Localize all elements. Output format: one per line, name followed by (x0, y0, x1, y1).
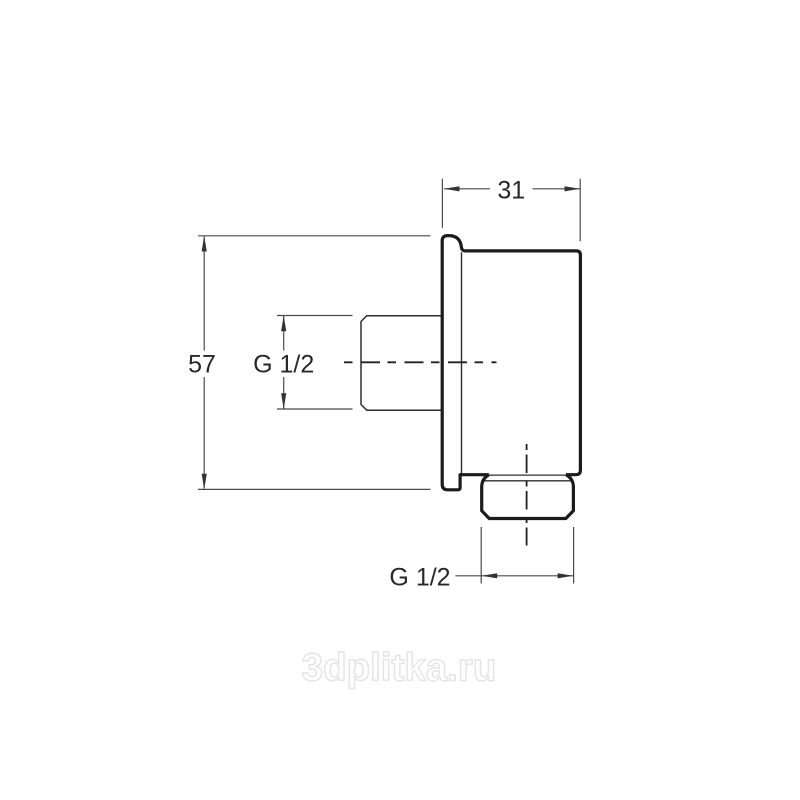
node: dim-57 bottom arrowhead (202, 474, 207, 490)
wire: rear threaded spigot outline (thin, G 1/2 inlet) (361, 316, 443, 411)
wire: bottom nut top face (thin) (484, 480, 571, 482)
wire: dim-G12-bottom dimension + leader line (456, 575, 574, 577)
node: dim-57 top arrowhead (202, 236, 207, 252)
wire: thin neck line between body bottom segments (489, 474, 566, 476)
svg-text:G 1/2: G 1/2 (253, 351, 314, 379)
wire: dim-G12-side dimension line (283, 316, 285, 409)
node: vertical centre line of bottom outlet (dash-dot) (526, 444, 528, 546)
node: dim-31 right arrowhead (565, 186, 581, 191)
wire: dim-G12-bottom right extension line (573, 527, 575, 584)
svg-text:3dplitka.ru: 3dplitka.ru (302, 647, 497, 690)
wire: bottom outlet nut outline with step diagonals (thick) (482, 475, 574, 519)
wire: dim-57 bottom extension line (198, 488, 431, 490)
wire: dim-G12-bottom left extension line (480, 527, 482, 584)
wire: dim-57 dimension line (203, 237, 205, 489)
node: dim-G12-bottom left arrowhead (482, 573, 498, 578)
svg-text:57: 57 (188, 351, 216, 379)
svg-text:31: 31 (497, 177, 525, 205)
node: horizontal centre line of rear spigot (dash-dot) (344, 361, 497, 363)
wire: dim-31 left extension line (441, 179, 443, 228)
wire: dim-31 right extension line (579, 179, 581, 242)
node: dim-31 left arrowhead (444, 186, 460, 191)
svg-text:G 1/2: G 1/2 (389, 564, 450, 592)
wire: dim-31 dimension line (444, 188, 580, 190)
wire: dim-G12-side bottom extension line (277, 408, 353, 410)
wire: flange back face thin vertical line (461, 252, 463, 473)
wire: main outline flange + body (thick) (442, 236, 580, 490)
node: dim-G12-bottom right arrowhead (558, 573, 574, 578)
wire: dim-G12-side top extension line (277, 315, 353, 317)
wire: dim-57 top extension line (198, 235, 431, 237)
node: dim-G12-side bottom arrowhead (281, 393, 286, 409)
node: dim-G12-side top arrowhead (281, 316, 286, 332)
